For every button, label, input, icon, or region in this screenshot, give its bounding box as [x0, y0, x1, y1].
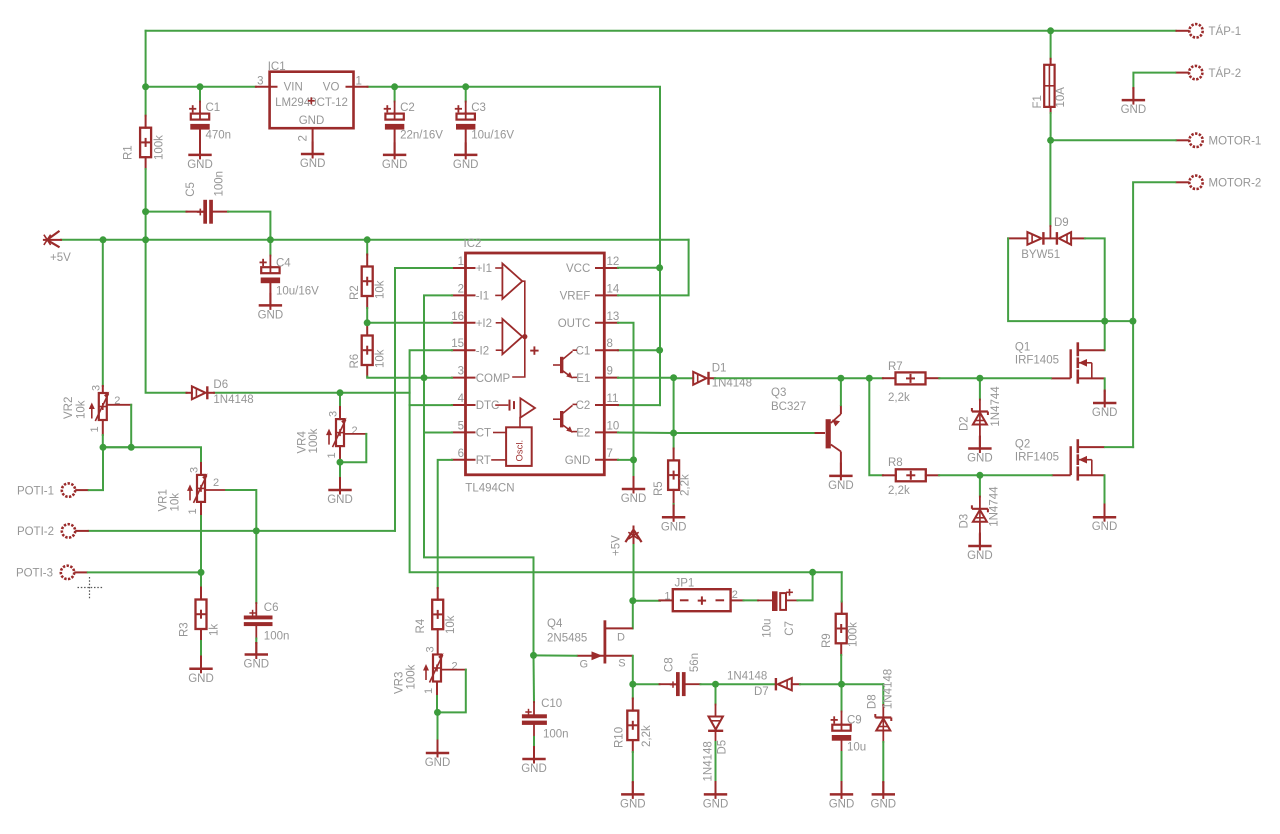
- svg-text:10k: 10k: [170, 493, 182, 512]
- svg-text:2,2k: 2,2k: [888, 485, 910, 497]
- svg-text:IRF1405: IRF1405: [1015, 452, 1059, 464]
- wire D8 bottom: [882, 731, 884, 743]
- pad MOTOR-2: [1176, 176, 1203, 189]
- wire pin7 gnd down: [633, 460, 635, 477]
- svg-text:R9: R9: [821, 633, 833, 648]
- wire D9 center up: [1049, 140, 1051, 226]
- svg-text:E1: E1: [576, 373, 590, 385]
- diode D6: [187, 392, 192, 394]
- capacitor C4: [260, 259, 281, 283]
- wire R9 top stub: [841, 602, 843, 614]
- wire C1 stub: [199, 102, 201, 114]
- svg-text:D8: D8: [867, 694, 879, 709]
- wire VR2 bottom stub: [102, 420, 104, 435]
- supply +5V mid: [626, 530, 641, 542]
- jumper JP1: [659, 599, 672, 601]
- ground: [622, 477, 645, 494]
- wire C1 bottom: [199, 130, 201, 155]
- node junction: [462, 83, 469, 90]
- wire C8-D7 line: [701, 683, 776, 685]
- ground: [383, 142, 406, 159]
- wire R3 bottom stub: [200, 629, 202, 641]
- node junction: [809, 569, 816, 576]
- wire VR4 gnd stub: [339, 478, 341, 490]
- ground: [189, 656, 212, 673]
- svg-text:Oscl.: Oscl.: [515, 440, 526, 462]
- svg-text:GND: GND: [244, 659, 270, 671]
- svg-text:VR2: VR2: [63, 397, 75, 419]
- pin IC2 13 stub: [596, 322, 618, 324]
- svg-text:F1: F1: [1032, 95, 1044, 108]
- capacitor C1: [189, 105, 210, 129]
- wire D7 right: [800, 683, 883, 685]
- potentiometer VR3: [423, 653, 444, 683]
- svg-text:Q3: Q3: [771, 387, 786, 399]
- svg-text:R4: R4: [415, 618, 427, 633]
- resistor R2: [362, 267, 373, 297]
- cursor artifact: [78, 587, 104, 589]
- svg-text:3: 3: [458, 366, 464, 378]
- wire C1 top: [199, 87, 201, 102]
- ground: [1093, 505, 1116, 522]
- svg-text:D5: D5: [717, 740, 729, 755]
- wire C4 top: [269, 240, 271, 256]
- svg-text:8: 8: [607, 338, 613, 350]
- node junction: [267, 236, 274, 243]
- capacitor C6: [255, 603, 257, 615]
- wire +5V to JP1: [633, 545, 635, 601]
- wire R10 gnd wire: [632, 752, 634, 782]
- svg-text:MOTOR-2: MOTOR-2: [1209, 178, 1262, 190]
- resistor R6: [362, 336, 373, 366]
- wire D2 bottom: [979, 425, 981, 437]
- svg-text:GND: GND: [300, 158, 326, 170]
- wire R9 bottom stub: [840, 644, 842, 656]
- svg-text:GND: GND: [661, 521, 687, 533]
- svg-text:10u/16V: 10u/16V: [276, 286, 319, 298]
- wire R8 to Q2 gate: [939, 474, 1052, 476]
- svg-text:GND: GND: [828, 480, 854, 492]
- pin IC2 9 stub: [596, 377, 618, 379]
- svg-text:1N4744: 1N4744: [989, 486, 1001, 527]
- svg-text:22n/16V: 22n/16V: [400, 129, 443, 141]
- resistor R5: [668, 460, 679, 490]
- wire VR3 bottom stub: [436, 682, 438, 697]
- svg-text:1k: 1k: [209, 624, 221, 636]
- node junction: [656, 347, 663, 354]
- wire C4 stub: [269, 256, 271, 268]
- svg-text:10: 10: [607, 420, 620, 432]
- svg-text:+5V: +5V: [50, 252, 71, 264]
- wire R1 bottom stub: [145, 157, 147, 169]
- svg-text:VIN: VIN: [284, 81, 303, 93]
- svg-text:GND: GND: [425, 757, 451, 769]
- pad TAP-1: [1176, 24, 1203, 37]
- wire VR1 bottom: [200, 516, 202, 588]
- wire R7 right stub: [926, 377, 940, 379]
- pin IC2 12 stub: [596, 267, 618, 269]
- wire D5 gnd wire: [715, 742, 717, 782]
- node junction: [1047, 27, 1054, 34]
- svg-text:DTC: DTC: [476, 400, 500, 412]
- wire R1 top: [145, 87, 147, 116]
- potentiometer VR2: [89, 392, 110, 422]
- svg-text:-I1: -I1: [476, 291, 489, 303]
- svg-text:2N5485: 2N5485: [547, 632, 587, 644]
- wire POTI-1: [89, 447, 103, 490]
- svg-text:D1: D1: [712, 363, 727, 375]
- svg-text:GND: GND: [187, 159, 213, 171]
- wire C9 top: [841, 684, 843, 711]
- svg-text:3: 3: [328, 411, 340, 417]
- svg-text:TÁP-2: TÁP-2: [1209, 67, 1242, 80]
- wire C10 gnd: [533, 737, 535, 747]
- node junction: [337, 459, 344, 466]
- wire pin11 link: [618, 404, 660, 406]
- svg-text:5: 5: [458, 420, 464, 432]
- svg-text:GND: GND: [620, 798, 646, 810]
- svg-text:GND: GND: [327, 494, 353, 506]
- svg-text:1: 1: [458, 256, 464, 268]
- svg-text:3: 3: [425, 646, 437, 652]
- ground: [188, 142, 211, 159]
- transistor IC2 output 1: [560, 357, 563, 373]
- wire R8 left stub: [883, 474, 896, 476]
- svg-text:2: 2: [352, 425, 358, 437]
- wire VR1 bottom stub: [200, 502, 202, 516]
- svg-text:IC1: IC1: [268, 61, 286, 73]
- pad POTI-3: [61, 566, 88, 579]
- resistor R7: [896, 372, 926, 384]
- svg-text:GND: GND: [703, 798, 729, 810]
- IC IC2 box: [466, 253, 605, 475]
- pin IC2 11 stub: [596, 404, 618, 406]
- svg-text:100n: 100n: [543, 728, 569, 740]
- node junction: [530, 652, 537, 659]
- svg-text:C4: C4: [276, 258, 291, 270]
- op-amp IC2 error amp 1: [502, 264, 522, 299]
- ground: [1122, 88, 1145, 105]
- wire R10 top: [632, 684, 634, 698]
- pin IC2 2 stub: [452, 294, 475, 296]
- svg-text:R3: R3: [179, 622, 191, 637]
- svg-text:S: S: [618, 657, 625, 669]
- ground: [426, 741, 449, 758]
- wire C9 gnd stub: [841, 782, 843, 794]
- wire JP1 left: [633, 600, 660, 602]
- svg-text:TL494CN: TL494CN: [465, 483, 514, 495]
- node junction: [142, 208, 149, 215]
- svg-text:2: 2: [732, 589, 738, 601]
- svg-text:Q2: Q2: [1015, 439, 1030, 451]
- wire D1 to R7: [715, 377, 883, 379]
- wire C2 stub: [394, 102, 396, 114]
- transistor Q1: [1051, 342, 1105, 383]
- wire D3 bottom: [979, 522, 981, 534]
- svg-text:C2: C2: [576, 400, 591, 412]
- wire VR2 wiper stub: [107, 404, 131, 406]
- wire D8 gnd stub: [882, 782, 884, 794]
- capacitor C9: [831, 716, 852, 740]
- wire R7 to Q1 gate: [939, 377, 1051, 379]
- node junction: [866, 375, 873, 382]
- comparator IC2 DTC: [496, 404, 508, 406]
- wire Q4 drain up: [632, 601, 634, 629]
- diode D5: [715, 705, 717, 717]
- wire E2: [618, 432, 674, 435]
- wire R7 left stub: [883, 377, 896, 379]
- node junction: [421, 374, 428, 381]
- svg-text:3: 3: [257, 76, 263, 88]
- wire top rail: [146, 30, 1176, 32]
- svg-text:POTI-1: POTI-1: [17, 485, 54, 497]
- svg-text:C2: C2: [400, 102, 415, 114]
- supply +5V left: [47, 232, 59, 247]
- svg-text:GND: GND: [871, 798, 897, 810]
- wire C2 bottom: [394, 130, 396, 155]
- svg-text:3: 3: [90, 385, 102, 391]
- wire D2 top: [979, 378, 981, 399]
- ground: [872, 782, 895, 799]
- capacitor C7: [758, 599, 772, 601]
- wire R10 bottom stub: [632, 740, 634, 752]
- node junction: [142, 236, 149, 243]
- wire VR2 top: [102, 240, 104, 386]
- ground: [328, 478, 351, 495]
- wire E2 to Q3 base: [674, 432, 815, 434]
- pin IC2 10 stub: [596, 431, 618, 433]
- wire VR1 top stub: [200, 463, 202, 475]
- node junction: [1047, 137, 1054, 144]
- resistor R1: [140, 128, 151, 158]
- svg-text:G: G: [580, 658, 589, 670]
- svg-text:1N4148: 1N4148: [712, 378, 752, 390]
- svg-text:GND: GND: [382, 159, 408, 171]
- wire C8 left: [633, 683, 660, 685]
- svg-text:10u/16V: 10u/16V: [471, 129, 514, 141]
- svg-text:3: 3: [189, 467, 201, 473]
- pad TAP-2: [1175, 66, 1202, 79]
- wire TAP-2 gnd stub: [1132, 88, 1134, 100]
- wire VR4 stub: [339, 407, 341, 419]
- svg-text:1: 1: [356, 76, 362, 88]
- wire F1 to MOTOR-1: [1050, 113, 1052, 140]
- pin IC1 VO stub: [347, 86, 368, 88]
- wire D8 gnd wire: [882, 742, 884, 782]
- node junction: [198, 569, 205, 576]
- wire VR4 gnd: [339, 462, 341, 478]
- wire R5 bottom stub: [673, 490, 675, 504]
- node junction: [100, 236, 107, 243]
- pin IC2 3 stub: [452, 377, 475, 379]
- svg-text:D3: D3: [959, 514, 971, 529]
- svg-text:2,2k: 2,2k: [888, 392, 910, 404]
- wire C6 gnd: [255, 639, 257, 644]
- svg-text:Q1: Q1: [1015, 342, 1030, 354]
- svg-text:2: 2: [213, 477, 219, 489]
- svg-text:VR3: VR3: [394, 672, 406, 694]
- svg-text:GND: GND: [299, 115, 325, 127]
- capacitor C8: [660, 683, 676, 685]
- svg-text:GND: GND: [188, 673, 214, 685]
- resistor R9: [836, 614, 847, 644]
- node junction: [364, 236, 371, 243]
- svg-text:POTI-3: POTI-3: [16, 568, 53, 580]
- svg-text:GND: GND: [521, 763, 547, 775]
- diode D1: [674, 377, 694, 379]
- svg-text:1: 1: [187, 508, 199, 514]
- transistor Q3: [815, 432, 825, 434]
- wire IC2 amp output rail: [513, 281, 525, 377]
- svg-text:GND: GND: [453, 159, 479, 171]
- svg-text:POTI-2: POTI-2: [17, 526, 54, 538]
- svg-text:VREF: VREF: [560, 291, 591, 303]
- wire R7 branch down: [869, 378, 883, 475]
- pin IC2 1 stub: [452, 267, 475, 269]
- wire R5 top: [673, 433, 675, 449]
- wire R10 top stub: [632, 684, 634, 710]
- capacitor C3: [455, 105, 476, 129]
- wire pin4 link: [410, 404, 452, 406]
- svg-text:COMP: COMP: [476, 373, 511, 385]
- node junction: [712, 681, 719, 688]
- ground: [301, 142, 324, 159]
- diode D9: [1008, 237, 1027, 239]
- wire C6 gnd stub: [255, 643, 257, 655]
- svg-text:CT: CT: [476, 428, 491, 440]
- wire Q2 drain right: [1105, 446, 1133, 448]
- wire D6 line right: [214, 392, 410, 394]
- capacitor C10: [533, 702, 535, 714]
- wire C3 bottom: [465, 130, 467, 155]
- wire R9 top wire: [841, 572, 843, 601]
- transistor Q4: [604, 620, 607, 663]
- ground: [621, 782, 644, 799]
- wire D3 stub: [979, 497, 981, 509]
- wire CT net: [424, 432, 452, 434]
- wire Q1 gnd stub: [1104, 391, 1106, 404]
- wire R8 right stub: [926, 474, 939, 476]
- svg-text:C8: C8: [664, 657, 676, 672]
- svg-text:100k: 100k: [308, 428, 320, 453]
- diode D8: [875, 714, 891, 731]
- svg-text:13: 13: [607, 311, 620, 323]
- svg-text:GND: GND: [1092, 407, 1118, 419]
- wire C6 top: [255, 531, 257, 603]
- svg-text:11: 11: [607, 393, 619, 405]
- svg-text:100n: 100n: [214, 171, 226, 197]
- svg-text:VR1: VR1: [158, 489, 170, 511]
- node junction: [976, 472, 983, 479]
- wire VIN rail right of IC1: [368, 87, 661, 405]
- wire C4 bottom: [269, 283, 271, 305]
- svg-text:C6: C6: [264, 602, 279, 614]
- wire C9 gnd wire: [841, 752, 843, 782]
- wire Q3 collector up: [840, 378, 842, 405]
- wire C5 left: [146, 211, 187, 213]
- wire POTI-2 net: [89, 530, 395, 532]
- svg-text:1N4148: 1N4148: [727, 671, 767, 683]
- svg-text:2: 2: [452, 661, 458, 673]
- svg-text:2: 2: [458, 283, 464, 295]
- capacitor C5: [187, 211, 203, 213]
- node junction: [656, 264, 663, 271]
- pin IC1 GND stub: [312, 128, 314, 154]
- wire VR2 stub: [102, 386, 104, 393]
- svg-text:+I2: +I2: [476, 318, 492, 330]
- node junction: [434, 709, 441, 716]
- svg-text:15: 15: [451, 338, 464, 350]
- wire R6 stub: [366, 323, 368, 336]
- ground: [968, 436, 991, 453]
- svg-text:Q4: Q4: [547, 618, 563, 630]
- pin IC2 5 stub: [452, 431, 475, 433]
- svg-text:16: 16: [451, 311, 464, 323]
- svg-text:2: 2: [298, 135, 310, 141]
- wire Q4 source down: [632, 656, 634, 684]
- svg-text:4: 4: [458, 393, 465, 405]
- wire VR2 bottom: [102, 435, 104, 447]
- diode D2: [972, 408, 988, 425]
- wire VR3 gnd: [437, 712, 439, 740]
- wire Q1 source: [1104, 378, 1106, 390]
- svg-text:R6: R6: [349, 354, 361, 369]
- wire VR4 wiper loop: [340, 434, 366, 462]
- wire C7 right: [798, 572, 813, 600]
- ground: [830, 782, 853, 799]
- svg-text:R2: R2: [349, 285, 361, 300]
- wire D8 top: [882, 684, 884, 705]
- pin IC2 14 stub: [596, 294, 618, 296]
- transistor Q2: [1052, 439, 1105, 480]
- wire R10 stub: [632, 699, 634, 711]
- wire E1: [618, 377, 674, 379]
- wire R1 top stub: [145, 116, 147, 128]
- svg-text:470n: 470n: [206, 129, 232, 141]
- svg-text:1N4148: 1N4148: [703, 741, 715, 781]
- wire COMP line: [367, 377, 452, 378]
- node junction: [837, 375, 844, 382]
- ground: [662, 505, 685, 522]
- svg-text:VCC: VCC: [566, 263, 590, 275]
- capacitor C2: [384, 105, 405, 129]
- wire VR2 wiper drop: [103, 405, 131, 448]
- svg-text:100n: 100n: [264, 631, 290, 643]
- node junction: [629, 681, 636, 688]
- wire C9 bottom: [841, 741, 843, 752]
- node junction: [100, 444, 107, 451]
- wire R3 gnd stub: [200, 657, 202, 669]
- potentiometer VR4: [326, 418, 347, 448]
- wire VIN rail left: [146, 86, 256, 88]
- svg-text:-I2: -I2: [476, 345, 489, 357]
- svg-text:9: 9: [607, 366, 613, 378]
- ground: [968, 534, 991, 551]
- svg-text:10k: 10k: [375, 280, 387, 299]
- resistor R3: [196, 600, 207, 630]
- wire pin2 drop: [424, 295, 452, 377]
- wire C10 gnd stub: [533, 747, 535, 759]
- label IC2 plus: [530, 350, 538, 352]
- wire VR3 wiper stub: [441, 669, 466, 671]
- wire F1 top: [1050, 31, 1052, 59]
- wire VR3 wiper loop: [438, 670, 466, 713]
- wire C10 top: [533, 655, 536, 702]
- svg-text:C9: C9: [847, 715, 862, 727]
- svg-text:MOTOR-1: MOTOR-1: [1209, 136, 1262, 148]
- transistor IC2 output 2: [560, 411, 563, 427]
- ground: [522, 747, 545, 764]
